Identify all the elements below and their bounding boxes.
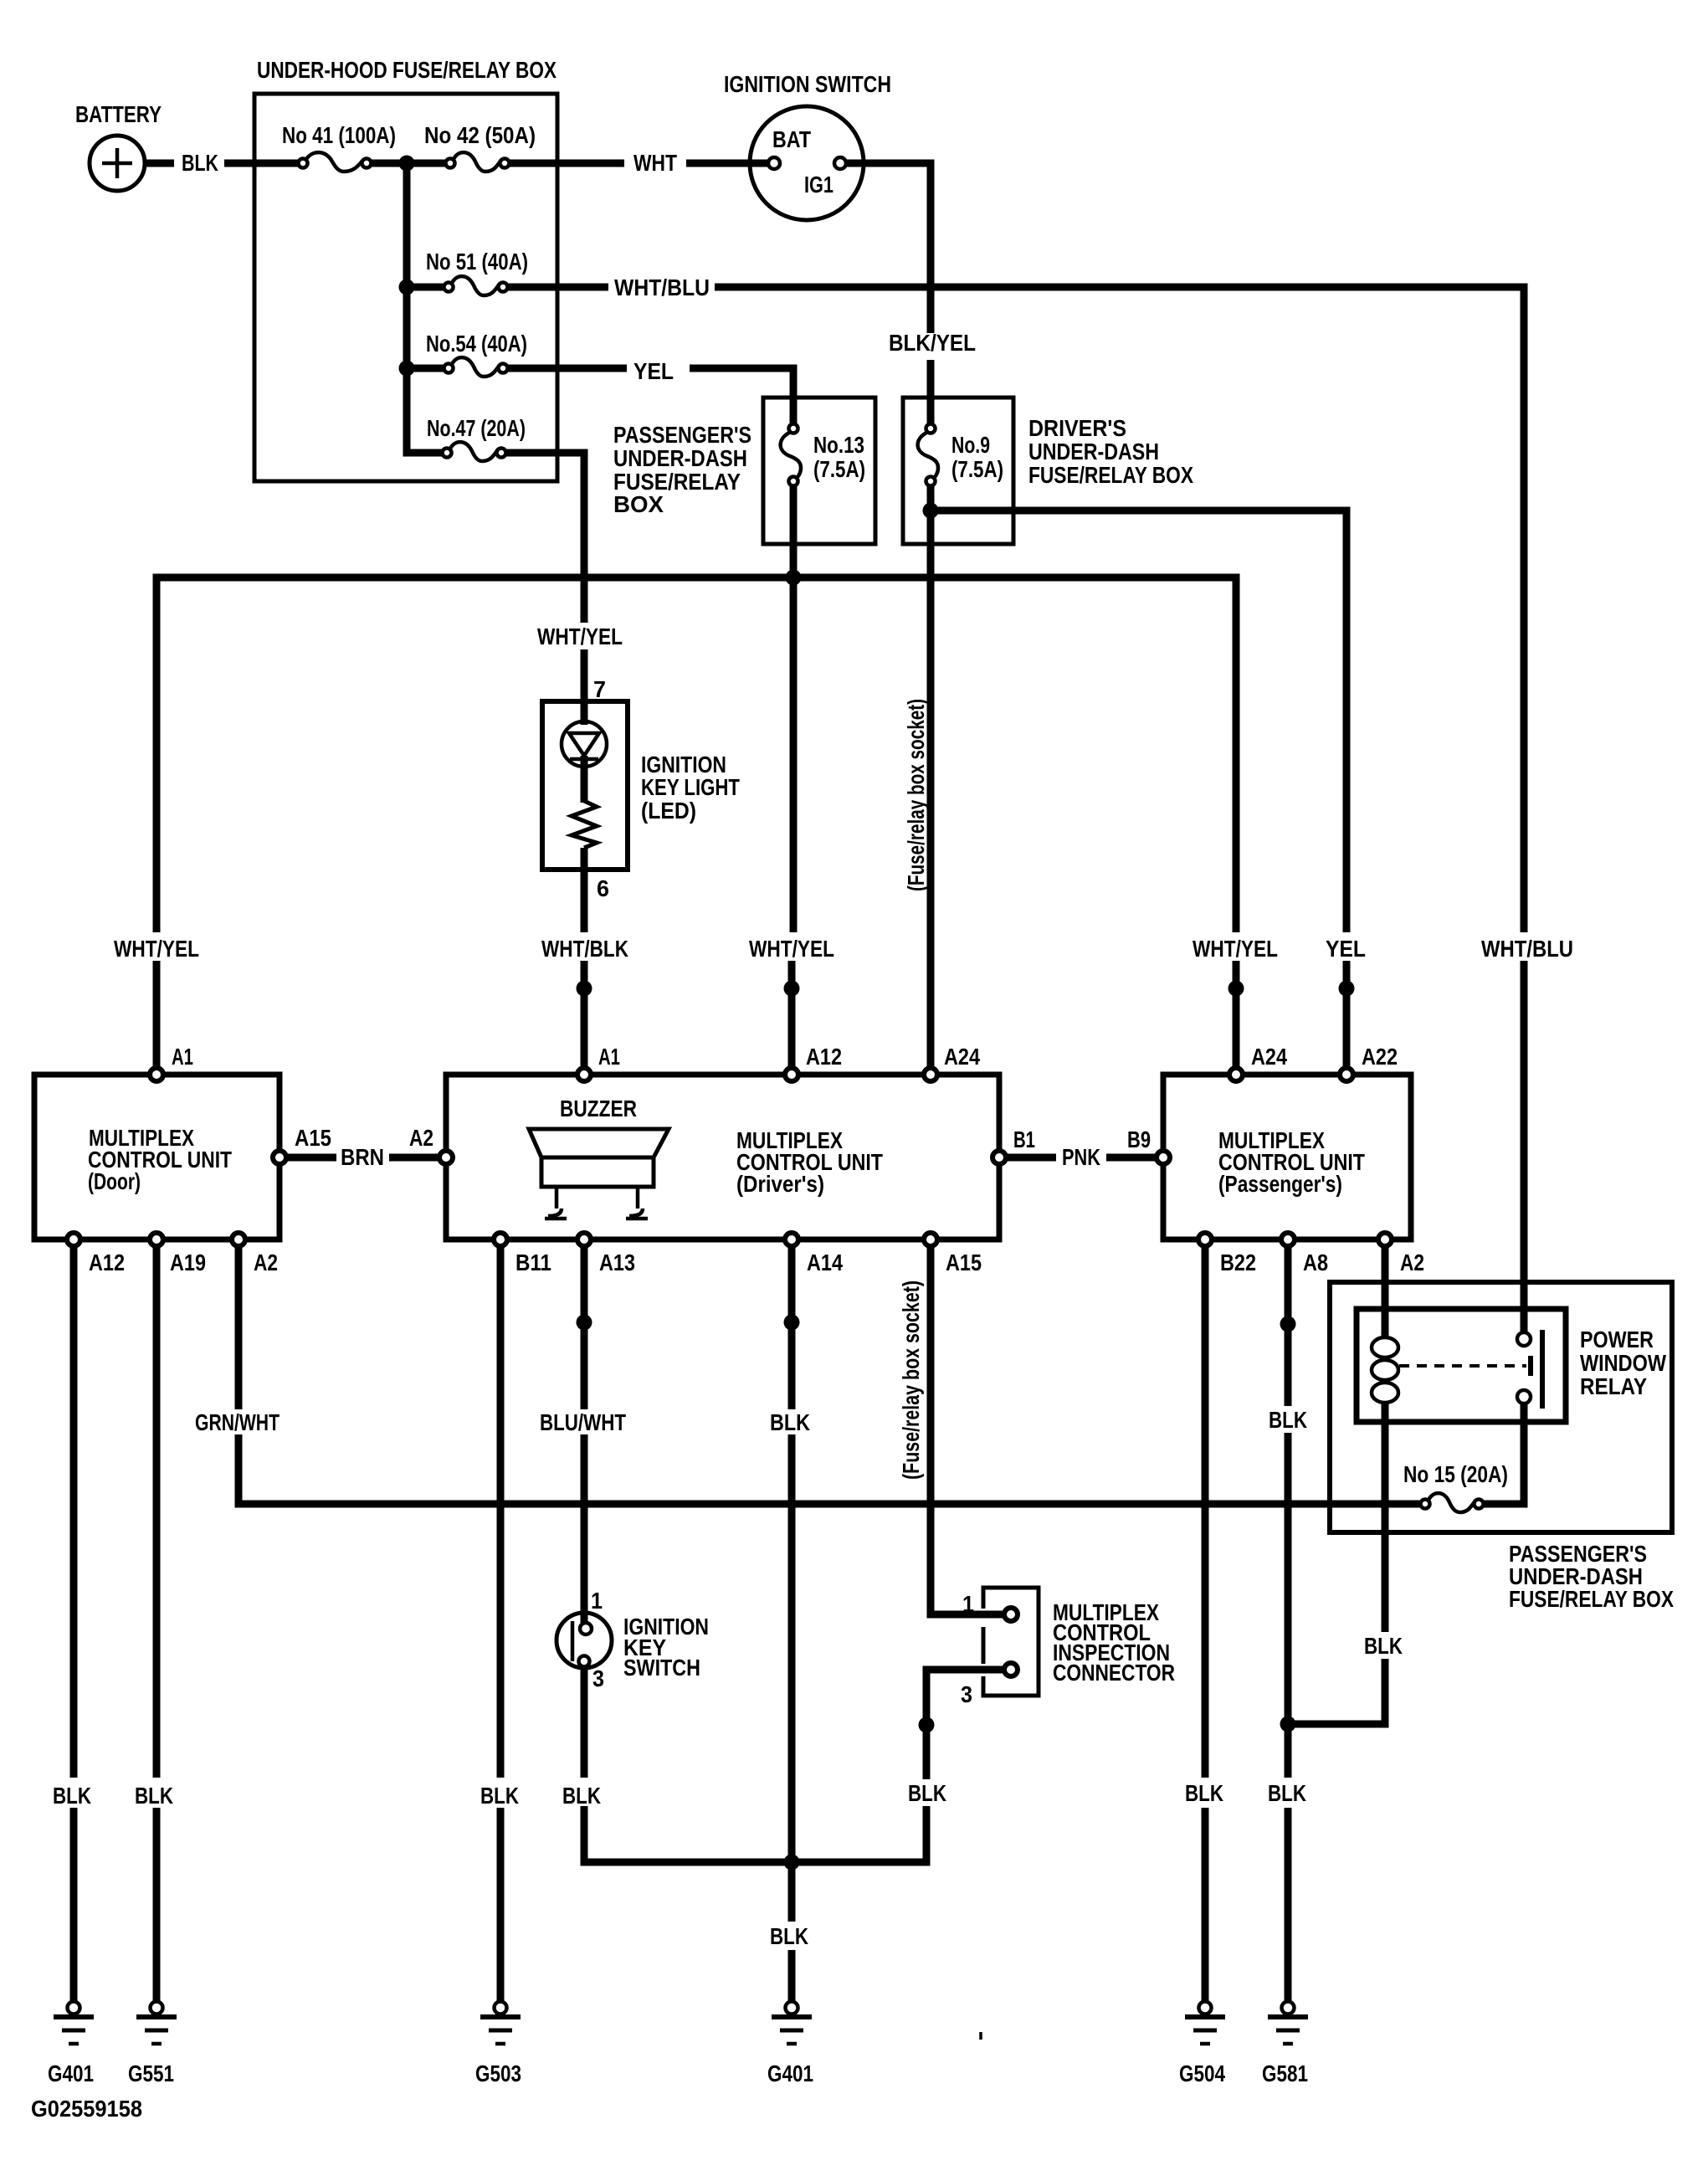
svg-text:WHT/BLU: WHT/BLU (614, 275, 710, 300)
label IGNITION KEY SWITCH (623, 1614, 709, 1681)
svg-text:G02559158: G02559158 (31, 2096, 142, 2122)
pin A13 (driver) (577, 1233, 591, 1246)
multiplex control unit (Passenger's) box (1163, 1075, 1411, 1239)
svg-text:No.13: No.13 (813, 432, 864, 458)
pin A15 (door) (273, 1151, 286, 1164)
svg-text:CONNECTOR: CONNECTOR (1053, 1660, 1175, 1686)
pin B22 (passenger) (1198, 1233, 1212, 1246)
connector pin 3 (1004, 1663, 1018, 1676)
svg-text:A14: A14 (807, 1250, 843, 1275)
fuse No.9 (7.5A) (918, 424, 938, 486)
svg-text:BLK: BLK (1269, 1407, 1307, 1433)
pin A8 (passenger) (1281, 1233, 1295, 1246)
svg-text:WHT/YEL: WHT/YEL (114, 936, 199, 962)
svg-text:BATTERY: BATTERY (75, 101, 162, 127)
battery (90, 136, 145, 191)
ground G551 (136, 2002, 177, 2045)
ignition key light (LED) box (542, 701, 628, 870)
svg-text:G551: G551 (128, 2060, 174, 2086)
label MULTIPLEX CONTROL UNIT (Passenger's) (1218, 1127, 1365, 1197)
wire BLU/WHT driver A13 to ignition key switch (581, 1247, 588, 1624)
svg-text:(7.5A): (7.5A) (813, 456, 865, 482)
pin A12 (driver) (785, 1068, 798, 1081)
svg-text:7: 7 (593, 676, 606, 702)
svg-text:BLK/YEL: BLK/YEL (889, 330, 976, 356)
junction coil BLK / A8 line (1280, 1717, 1296, 1732)
wire No.9 junction right and down (YEL) to passenger A22 (931, 511, 1346, 1075)
wire WHT/BLU vertical down to relay (1521, 961, 1528, 1332)
svg-text:G401: G401 (48, 2060, 94, 2086)
svg-text:1: 1 (962, 1591, 974, 1617)
wire BLK door A19 to G551 (153, 1247, 161, 2001)
label IGNITION KEY LIGHT (LED) (641, 752, 740, 824)
svg-text:RELAY: RELAY (1580, 1373, 1647, 1399)
svg-text:G503: G503 (475, 2060, 521, 2086)
svg-text:UNDER-HOOD FUSE/RELAY BOX: UNDER-HOOD FUSE/RELAY BOX (257, 57, 557, 83)
fuse No 41 (100A) (299, 152, 372, 172)
ground G581 (1268, 2002, 1308, 2045)
fuse No.54 (40A) row wire (407, 368, 793, 424)
wire No.13 output down (790, 485, 798, 577)
pin A1 (driver) (577, 1068, 591, 1081)
svg-text:PASSENGER'S: PASSENGER'S (613, 422, 751, 448)
svg-text:IG1: IG1 (804, 172, 833, 198)
svg-text:DRIVER'S: DRIVER'S (1028, 415, 1126, 441)
svg-text:A12: A12 (806, 1044, 842, 1070)
svg-text:YEL: YEL (633, 358, 674, 384)
svg-text:A2: A2 (254, 1250, 278, 1275)
svg-text:BLK: BLK (1364, 1633, 1403, 1659)
svg-text:BLK: BLK (770, 1923, 808, 1949)
fuse No 51 (40A) row wire (407, 287, 1524, 932)
connector pin 1 (1004, 1608, 1018, 1621)
svg-text:POWER: POWER (1580, 1327, 1654, 1352)
junction No.13/distribution (786, 570, 802, 586)
wire battery to fuse box (145, 160, 303, 167)
wire BLK driver B11 to G503 (497, 1247, 505, 2001)
wire BLK connector pin 3 down to ground line (792, 1670, 1004, 1862)
svg-text:G401: G401 (767, 2060, 813, 2086)
svg-text:B9: B9 (1127, 1126, 1151, 1152)
label POWER WINDOW RELAY (1580, 1327, 1666, 1399)
svg-text:BLK: BLK (1185, 1780, 1223, 1806)
ignition key switch (557, 1613, 612, 1668)
svg-text:No.47 (20A): No.47 (20A) (427, 415, 526, 441)
wire BRN (door A15 to driver A2) (288, 1154, 438, 1162)
svg-text:SWITCH: SWITCH (623, 1655, 700, 1681)
svg-text:3: 3 (592, 1665, 604, 1691)
power window relay box (1357, 1309, 1566, 1422)
splice on pin 3 wire (919, 1717, 935, 1733)
svg-text:(Fuse/relay box socket): (Fuse/relay box socket) (898, 1280, 924, 1480)
label MULTIPLEX CONTROL UNIT (Door) (88, 1125, 232, 1194)
ground G401 (54, 2002, 94, 2045)
svg-text:(LED): (LED) (641, 798, 696, 824)
svg-text:A8: A8 (1303, 1250, 1328, 1275)
svg-text:No 15 (20A): No 15 (20A) (1403, 1461, 1508, 1487)
svg-text:1: 1 (591, 1588, 603, 1614)
svg-text:B1: B1 (1013, 1126, 1035, 1152)
svg-text:A22: A22 (1362, 1044, 1398, 1070)
splice WHT/YEL right (1228, 981, 1244, 997)
box label PASSENGER'S UNDER-DASH FUSE/RELAY BOX (613, 422, 751, 517)
wire BLK door A12 to G401 (70, 1247, 78, 2001)
pin A1 (door) (150, 1068, 163, 1081)
label MULTIPLEX CONTROL UNIT (Driver's) (736, 1127, 883, 1197)
svg-text:FUSE/RELAY BOX: FUSE/RELAY BOX (1028, 462, 1193, 488)
wire WHT/YEL down to door A1 (153, 961, 161, 1075)
svg-text:GRN/WHT: GRN/WHT (195, 1409, 280, 1435)
svg-text:KEY LIGHT: KEY LIGHT (641, 774, 740, 800)
wire passenger A2 down to relay coil (1382, 1247, 1389, 1339)
svg-text:No.54 (40A): No.54 (40A) (426, 331, 527, 357)
svg-text:BLK: BLK (53, 1783, 91, 1809)
splice YEL (1339, 981, 1355, 997)
pin A12 (door) (67, 1233, 80, 1246)
pin A22 (passenger) (1340, 1068, 1353, 1081)
svg-text:WHT: WHT (633, 150, 677, 176)
svg-text:A1: A1 (172, 1044, 193, 1070)
svg-text:BLK: BLK (1268, 1780, 1306, 1806)
wire main bus inside fuse box (367, 160, 767, 167)
svg-text:(Fuse/relay box socket): (Fuse/relay box socket) (903, 699, 929, 891)
svg-text:WHT/YEL: WHT/YEL (537, 624, 623, 649)
pin B1 (driver) (992, 1151, 1006, 1164)
svg-text:(Passenger's): (Passenger's) (1218, 1171, 1342, 1197)
relay contact (bottom, to fuse No 15) (1517, 1390, 1531, 1404)
svg-text:A24: A24 (1251, 1044, 1287, 1070)
multiplex control inspection connector box (983, 1588, 1039, 1696)
splice WHT/BLK (577, 981, 592, 997)
wire GRN/WHT door A2 down and right to fuse No 15 (239, 1247, 1425, 1504)
fuse No 42 (50A) (446, 152, 510, 172)
svg-text:UNDER-DASH: UNDER-DASH (613, 445, 747, 471)
relay coil (1372, 1337, 1398, 1403)
stray scan mark (979, 2032, 982, 2040)
pin A24 (driver) (924, 1068, 937, 1081)
wire WHT/YEL distribution line (156, 577, 1236, 932)
svg-text:(7.5A): (7.5A) (951, 456, 1003, 482)
svg-text:A2: A2 (409, 1125, 433, 1151)
pin A2 (passenger) (1378, 1233, 1392, 1246)
relay switch contact bar (1531, 1330, 1542, 1409)
svg-text:WHT/BLK: WHT/BLK (541, 936, 628, 962)
wire WHT/YEL down to passenger A24 (1233, 961, 1240, 1075)
pin A19 (door) (150, 1233, 163, 1246)
fuse No.54 (40A) (444, 357, 508, 377)
svg-text:G504: G504 (1179, 2060, 1225, 2086)
wire BLK passenger A8 to G581 (1285, 1247, 1292, 2001)
svg-text:G581: G581 (1262, 2060, 1308, 2086)
multiplex control unit (Door) box (34, 1075, 280, 1239)
svg-text:A19: A19 (170, 1250, 206, 1275)
svg-text:BAT: BAT (772, 126, 811, 152)
box label PASSENGER'S UNDER-DASH FUSE/RELAY BOX (lower) (1509, 1541, 1674, 1612)
svg-text:No 51 (40A): No 51 (40A) (426, 249, 528, 275)
wire BLK/YEL vertical (847, 163, 931, 424)
LED symbol (562, 701, 607, 803)
svg-text:PNK: PNK (1062, 1144, 1100, 1170)
buzzer (529, 1129, 669, 1219)
resistor (LED series) (572, 801, 597, 848)
pin B11 (driver) (494, 1233, 507, 1246)
svg-text:WHT/YEL: WHT/YEL (749, 936, 834, 962)
fuse No.47 (20A) (443, 442, 506, 461)
pin B9 (passenger) (1157, 1151, 1170, 1164)
svg-text:WINDOW: WINDOW (1580, 1350, 1666, 1376)
fuse value label No.13 (7.5A) (813, 432, 865, 482)
svg-text:BLK: BLK (562, 1783, 601, 1809)
driver under-dash fuse/relay box (No.9) (903, 398, 1013, 544)
junction bus/feed (399, 156, 415, 172)
wire WHT/BLK key light to driver A1 (581, 848, 588, 1075)
svg-text:(Door): (Door) (88, 1168, 141, 1194)
svg-text:No 41 (100A): No 41 (100A) (282, 122, 396, 148)
pin A2 (door) (232, 1233, 245, 1246)
svg-text:WHT/BLU: WHT/BLU (1481, 936, 1573, 962)
svg-text:A15: A15 (946, 1250, 982, 1275)
svg-text:No.9: No.9 (951, 432, 990, 458)
svg-text:A12: A12 (89, 1250, 125, 1275)
svg-text:A13: A13 (599, 1250, 635, 1275)
pin A24 (passenger) (1229, 1068, 1243, 1081)
svg-text:BLK: BLK (135, 1783, 173, 1809)
ground G504 (1185, 2002, 1225, 2045)
passenger under-dash fuse/relay box (No.13) (763, 398, 875, 544)
fuse No 15 (20A) (1421, 1493, 1484, 1512)
fuse No.47 (20A) row wire (501, 453, 584, 705)
svg-text:IGNITION SWITCH: IGNITION SWITCH (724, 71, 891, 97)
splice WHT/YEL center (784, 981, 800, 997)
svg-text:BOX: BOX (613, 491, 664, 517)
wire BLK key switch pin 3 down and right (584, 1665, 792, 1862)
svg-text:(Driver's): (Driver's) (736, 1171, 824, 1197)
svg-text:B11: B11 (515, 1250, 551, 1275)
pin A2 (driver) (439, 1151, 453, 1164)
junction key switch / A14 ground line (784, 1855, 800, 1871)
ignition switch (750, 106, 864, 220)
fuse value label No.9 (7.5A) (951, 432, 1003, 482)
wire BLK driver A14 to G401 (788, 1247, 796, 2001)
junction No.9 output (923, 503, 939, 519)
wire PNK (driver B1 to passenger B9) (1008, 1154, 1155, 1162)
svg-text:A24: A24 (944, 1044, 980, 1070)
svg-text:BLK: BLK (480, 1783, 519, 1809)
wire A15 (Fuse/relay box socket) to connector pin 1 (931, 1247, 1004, 1614)
multiplex control unit (Driver's) box (446, 1075, 999, 1239)
label MULTIPLEX CONTROL INSPECTION CONNECTOR (1053, 1599, 1175, 1686)
svg-text:A15: A15 (295, 1125, 331, 1151)
pin A15 (driver) (924, 1233, 937, 1246)
svg-text:6: 6 (597, 875, 609, 901)
svg-text:UNDER-DASH: UNDER-DASH (1028, 439, 1159, 464)
svg-text:B22: B22 (1220, 1250, 1256, 1275)
junction feed/No54 (399, 361, 415, 377)
svg-text:A2: A2 (1400, 1250, 1424, 1275)
svg-text:BLK: BLK (770, 1409, 810, 1435)
wire relay switch to fuse No 15 (1479, 1403, 1524, 1504)
svg-text:3: 3 (961, 1681, 972, 1707)
svg-text:WHT/YEL: WHT/YEL (1193, 936, 1278, 962)
svg-text:BUZZER: BUZZER (560, 1096, 637, 1121)
ground G401 (772, 2002, 812, 2045)
box label DRIVER'S UNDER-DASH FUSE/RELAY BOX (1028, 415, 1193, 488)
passenger under-dash fuse/relay box (relay, outer) (1330, 1282, 1672, 1532)
ground G503 (480, 2002, 521, 2045)
svg-text:BLK: BLK (908, 1780, 946, 1806)
wire BLK passenger B22 to G504 (1202, 1247, 1209, 2001)
junction feed/No51 (399, 280, 415, 295)
wire No.9 output down to driver A24 (927, 485, 935, 1075)
wire WHT/YEL down to driver A12 (792, 577, 793, 1075)
pin A14 (driver) (785, 1233, 798, 1246)
relay contact (top, from WHT/BLU) (1517, 1332, 1531, 1346)
relay dashed actuator line (1399, 1364, 1526, 1368)
svg-text:FUSE/RELAY BOX: FUSE/RELAY BOX (1509, 1586, 1674, 1612)
fuse No.13 (7.5A) (781, 424, 801, 486)
svg-text:BLU/WHT: BLU/WHT (540, 1409, 626, 1435)
svg-text:No 42 (50A): No 42 (50A) (424, 122, 536, 148)
fuse No 51 (40A) (444, 276, 508, 295)
svg-text:BLK: BLK (182, 150, 218, 176)
svg-text:A1: A1 (598, 1044, 620, 1070)
wire feed down inside fuse box (407, 163, 447, 453)
wire relay coil down (BLK) (1288, 1401, 1385, 1724)
svg-text:YEL: YEL (1326, 936, 1366, 962)
svg-text:BRN: BRN (341, 1144, 384, 1170)
under-hood fuse/relay box (254, 94, 557, 481)
